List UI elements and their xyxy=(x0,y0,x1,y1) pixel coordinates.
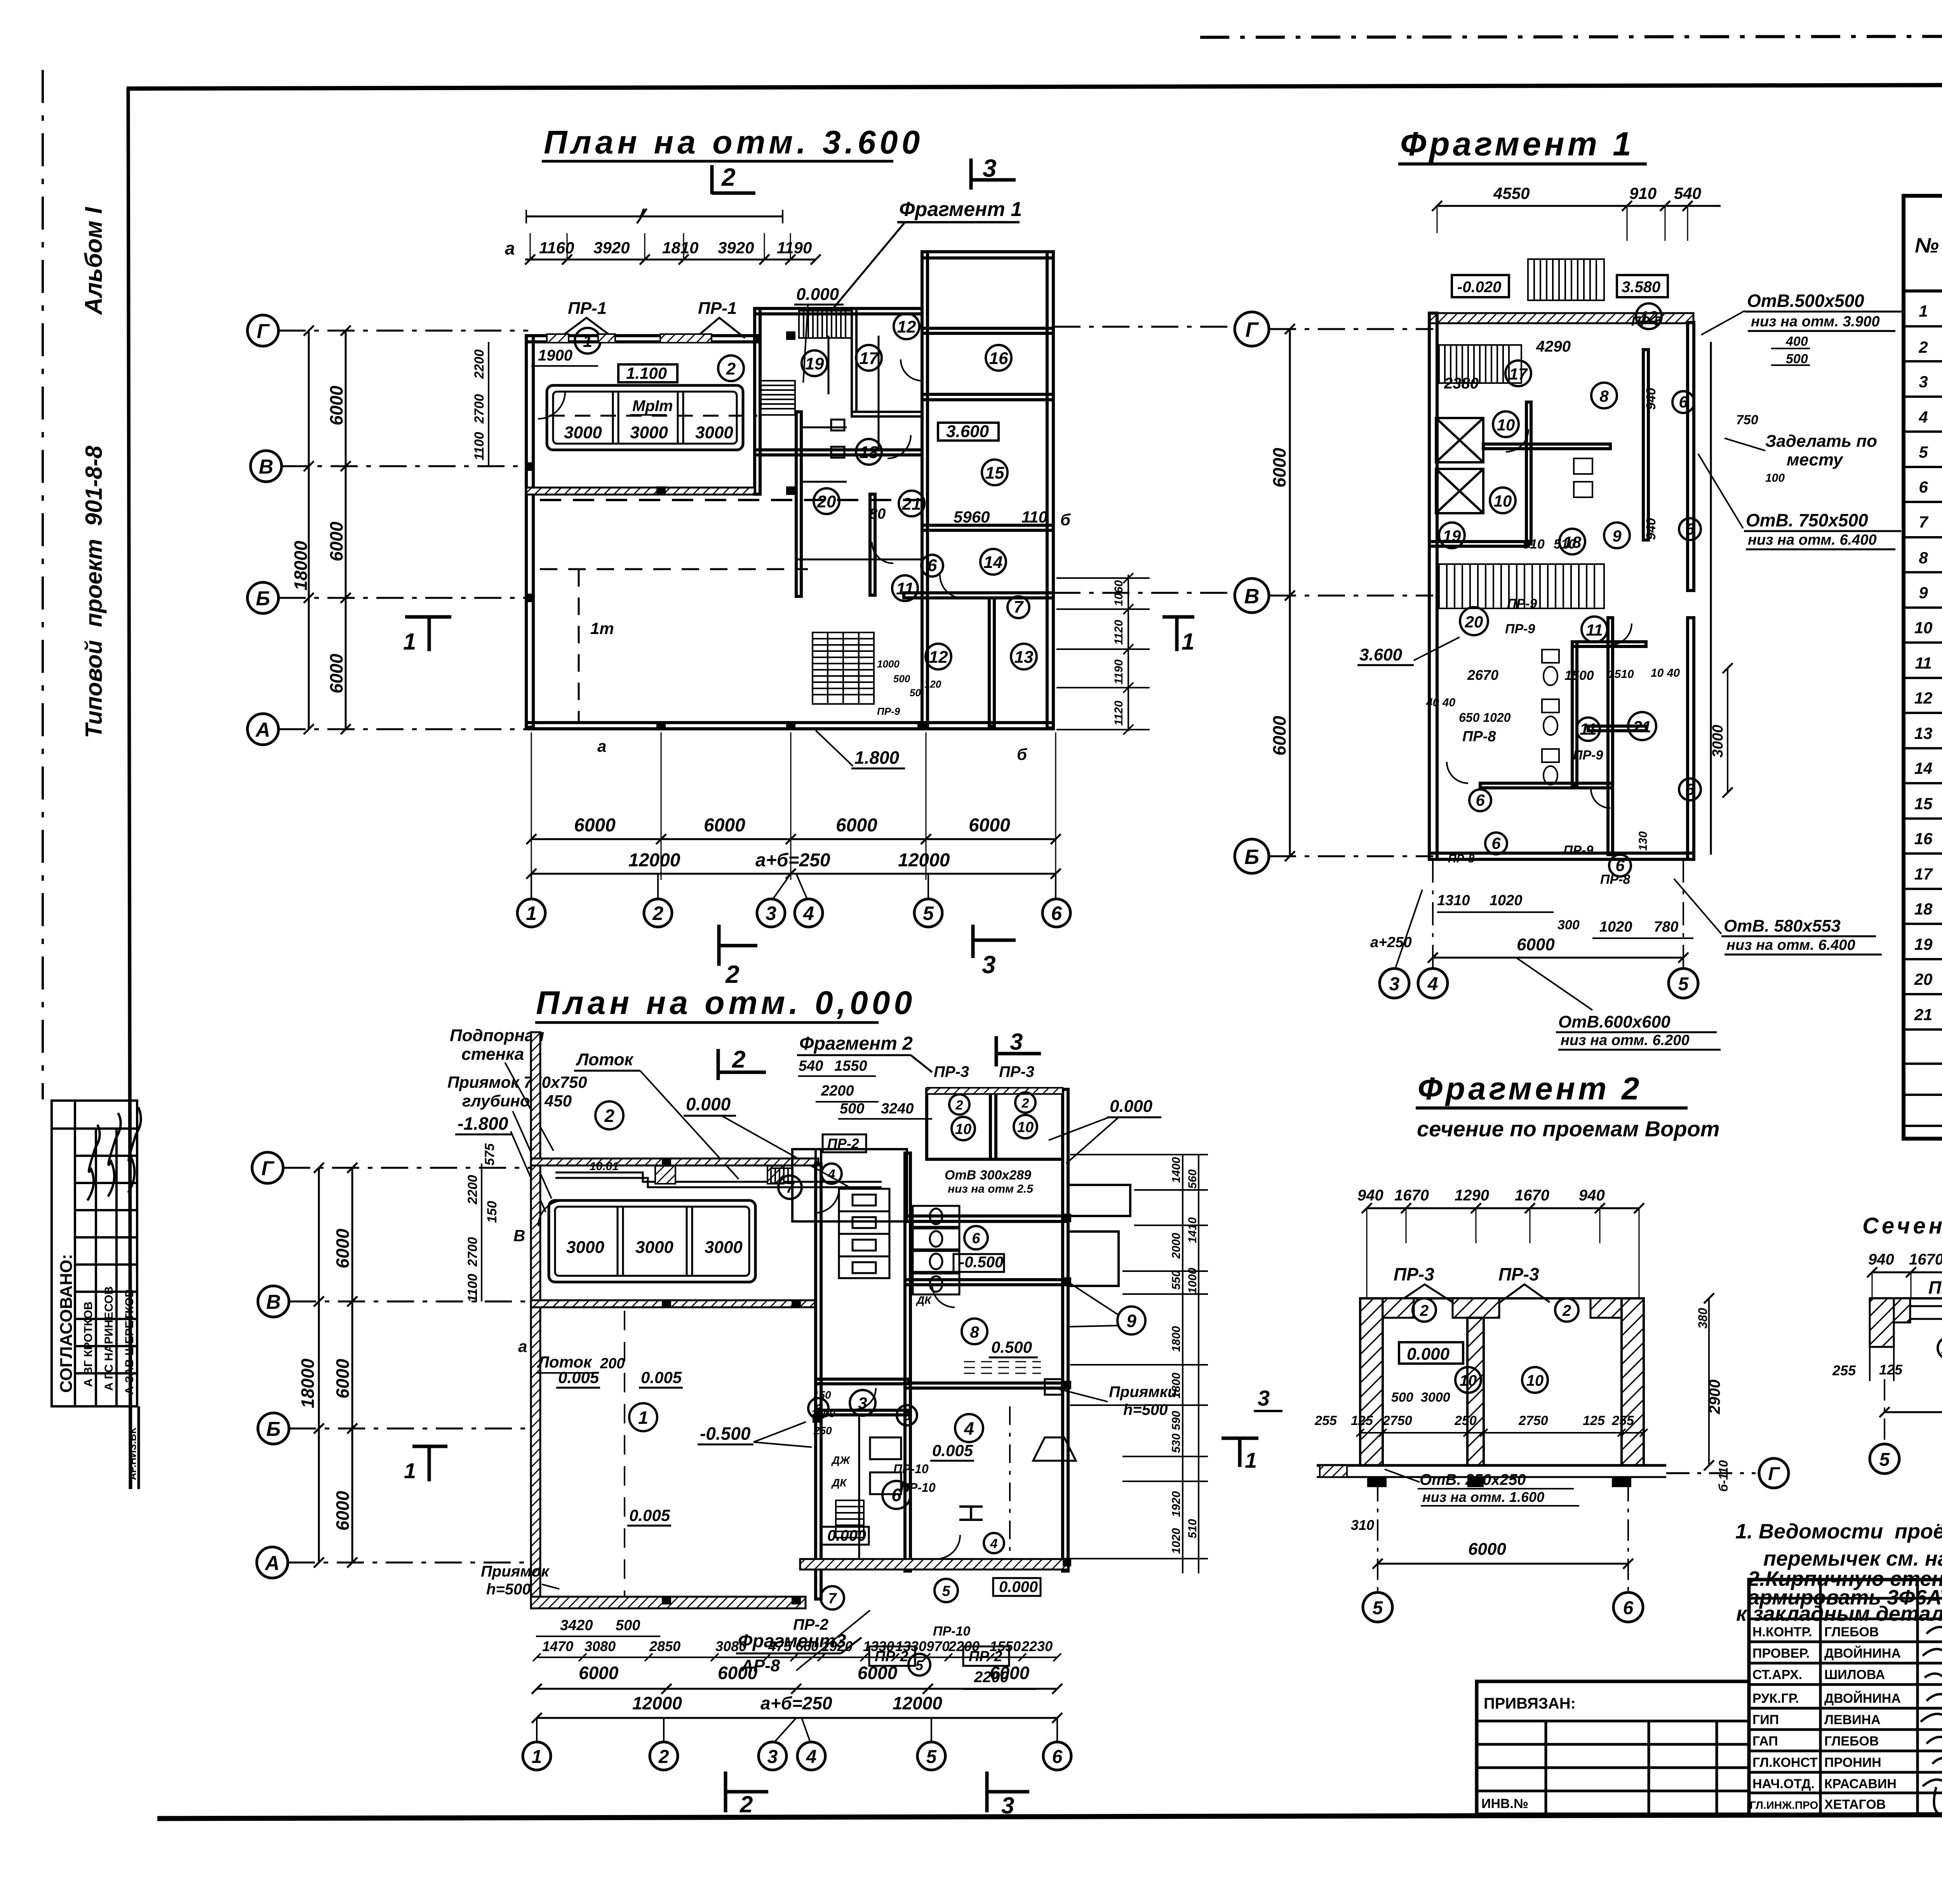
svg-text:0.005: 0.005 xyxy=(629,1506,670,1524)
svg-text:0.005: 0.005 xyxy=(641,1368,682,1387)
svg-text:18: 18 xyxy=(1914,900,1933,918)
svg-text:3420: 3420 xyxy=(560,1617,593,1634)
svg-text:ОтВ. 580х553: ОтВ. 580х553 xyxy=(1724,916,1841,935)
svg-text:ДК: ДК xyxy=(831,1477,847,1489)
bottom section marks xyxy=(724,1772,727,1812)
svg-text:План на отм. 0,000: План на отм. 0,000 xyxy=(536,984,916,1021)
svg-text:14: 14 xyxy=(1914,759,1933,777)
svg-text:1120: 1120 xyxy=(1112,700,1125,726)
svg-text:1: 1 xyxy=(526,902,537,924)
svg-text:19: 19 xyxy=(805,354,824,373)
svg-text:1190: 1190 xyxy=(1112,659,1125,685)
svg-text:-0.500: -0.500 xyxy=(700,1423,751,1444)
svg-text:560: 560 xyxy=(1186,1169,1199,1189)
svg-text:6: 6 xyxy=(1476,791,1485,809)
svg-text:125: 125 xyxy=(1583,1413,1605,1428)
svg-text:16: 16 xyxy=(989,349,1008,368)
right annexes xyxy=(1068,1185,1130,1216)
svg-text:1410: 1410 xyxy=(1186,1217,1199,1243)
svg-text:2: 2 xyxy=(1918,338,1928,356)
svg-text:ОтВ. 750х500: ОтВ. 750х500 xyxy=(1746,510,1868,530)
svg-text:3: 3 xyxy=(766,902,776,924)
svg-text:6000: 6000 xyxy=(579,1663,619,1683)
svg-text:3000: 3000 xyxy=(695,423,733,442)
svg-text:380: 380 xyxy=(1696,1308,1710,1329)
structure xyxy=(1870,1297,1942,1300)
svg-text:1060: 1060 xyxy=(1112,580,1125,606)
svg-text:6: 6 xyxy=(1051,902,1062,924)
svg-text:2200: 2200 xyxy=(465,1175,480,1205)
svg-text:13: 13 xyxy=(1015,648,1034,667)
svg-text:ДВОЙНИНА: ДВОЙНИНА xyxy=(1824,1646,1901,1661)
svg-text:Фрагмент 2: Фрагмент 2 xyxy=(1418,1071,1643,1106)
stair in vestibule xyxy=(836,1500,864,1538)
svg-text:ПР-10: ПР-10 xyxy=(933,1624,970,1639)
svg-text:ГЛ.КОНСТ: ГЛ.КОНСТ xyxy=(1752,1755,1818,1770)
svg-text:940: 940 xyxy=(1357,1187,1383,1204)
svg-text:3: 3 xyxy=(982,951,996,979)
svg-text:ПРИВЯЗАН:: ПРИВЯЗАН: xyxy=(1484,1695,1576,1712)
svg-text:21: 21 xyxy=(1633,718,1651,736)
stair 1 xyxy=(1439,345,1521,383)
svg-text:ГИП: ГИП xyxy=(1752,1712,1779,1727)
svg-text:21: 21 xyxy=(1914,1005,1933,1024)
bottom stair xyxy=(813,632,874,704)
fixtures in shower block xyxy=(796,336,922,559)
svg-text:6: 6 xyxy=(1615,856,1625,874)
svg-text:0.000: 0.000 xyxy=(796,285,839,304)
column pads xyxy=(655,1166,675,1184)
svg-text:150: 150 xyxy=(813,1389,831,1401)
svg-text:ПР-3: ПР-3 xyxy=(1498,1264,1539,1284)
svg-text:4: 4 xyxy=(828,1167,835,1182)
svg-text:3: 3 xyxy=(1389,974,1400,995)
section mark 2 top xyxy=(710,165,714,194)
svg-text:к закладным деталям в колоннах: к закладным деталям в колоннах. xyxy=(1736,1602,1942,1625)
left axes xyxy=(278,331,528,729)
svg-text:12: 12 xyxy=(1914,689,1933,707)
svg-text:50: 50 xyxy=(910,687,921,699)
svg-text:5: 5 xyxy=(926,1747,937,1767)
svg-text:6000: 6000 xyxy=(1269,448,1289,488)
svg-text:8: 8 xyxy=(970,1323,979,1341)
svg-text:10 40: 10 40 xyxy=(1651,667,1680,679)
svg-text:6000: 6000 xyxy=(704,815,745,836)
svg-text:5: 5 xyxy=(1678,974,1689,995)
svg-text:80: 80 xyxy=(869,506,886,522)
svg-text:2200: 2200 xyxy=(948,1638,980,1654)
svg-text:ПР-9: ПР-9 xyxy=(877,706,900,717)
svg-text:МрIт: МрIт xyxy=(632,397,673,415)
svg-text:1550: 1550 xyxy=(834,1058,867,1074)
svg-text:0.000: 0.000 xyxy=(1110,1097,1153,1116)
sanitary fixtures fragment1 xyxy=(1542,458,1592,785)
svg-text:4: 4 xyxy=(964,1418,974,1439)
svg-text:11: 11 xyxy=(1580,720,1597,738)
fragment1 small texts xyxy=(1426,314,1680,887)
building walls xyxy=(1429,313,1693,323)
circles xyxy=(1413,1298,1578,1393)
svg-text:КРАСАВИН: КРАСАВИН xyxy=(1824,1777,1897,1791)
svg-text:19: 19 xyxy=(1443,527,1461,545)
svg-text:2230: 2230 xyxy=(1021,1638,1053,1654)
T1 mark left plan2 xyxy=(412,1445,447,1448)
axis leaders and circles xyxy=(1395,859,1683,969)
dash centerline room1 xyxy=(624,1311,625,1597)
svg-text:7: 7 xyxy=(828,1590,837,1607)
svg-text:ПР-10: ПР-10 xyxy=(900,1481,936,1495)
svg-text:ОтВ.500х500: ОтВ.500х500 xyxy=(1747,291,1864,311)
svg-text:9: 9 xyxy=(1919,584,1928,602)
svg-text:а+б=250: а+б=250 xyxy=(760,1693,832,1713)
svg-text:4290: 4290 xyxy=(1536,338,1571,355)
section marks bottom plan1 xyxy=(717,925,721,966)
svg-text:ОтВ 300х289: ОтВ 300х289 xyxy=(945,1168,1031,1183)
column marks plan2 xyxy=(662,1158,1071,1604)
svg-text:Заделать по: Заделать по xyxy=(1765,432,1877,451)
svg-text:11: 11 xyxy=(1915,654,1932,672)
svg-text:3: 3 xyxy=(1919,373,1928,391)
svg-text:0.000: 0.000 xyxy=(999,1578,1038,1596)
svg-text:540: 540 xyxy=(799,1058,823,1074)
svg-text:6000: 6000 xyxy=(326,653,346,693)
svg-text:5: 5 xyxy=(915,1657,924,1673)
svg-text:ПР-3: ПР-3 xyxy=(1394,1264,1434,1284)
svg-text:150: 150 xyxy=(485,1201,499,1223)
svg-text:4: 4 xyxy=(990,1536,998,1551)
level labels xyxy=(558,1168,1038,1596)
svg-text:10: 10 xyxy=(1914,618,1933,637)
svg-text:В: В xyxy=(513,1226,525,1245)
callout texts top-left xyxy=(447,1026,587,1134)
svg-text:ЛЕВИНА: ЛЕВИНА xyxy=(1824,1712,1881,1727)
svg-text:6: 6 xyxy=(903,1409,911,1423)
svg-text:5: 5 xyxy=(923,902,934,924)
door swing arcs plan1 xyxy=(538,359,963,598)
svg-text:1310: 1310 xyxy=(1437,892,1470,909)
svg-text:А ЗАВ ШЕРЕТКОВ: А ЗАВ ШЕРЕТКОВ xyxy=(123,1289,136,1395)
approval table (rotated) xyxy=(52,1101,137,1406)
svg-text:3000: 3000 xyxy=(566,1238,604,1257)
svg-text:1: 1 xyxy=(638,1408,648,1428)
left axes plan2 xyxy=(283,1168,532,1563)
svg-text:В: В xyxy=(1244,585,1260,608)
svg-text:0.000: 0.000 xyxy=(1407,1345,1450,1364)
svg-text:6000: 6000 xyxy=(326,385,346,425)
svg-text:250: 250 xyxy=(813,1425,832,1437)
svg-text:255: 255 xyxy=(1611,1413,1634,1428)
svg-text:3000: 3000 xyxy=(564,423,602,442)
svg-text:0.005: 0.005 xyxy=(558,1368,599,1387)
3.600 box xyxy=(938,423,999,441)
svg-text:6: 6 xyxy=(1679,393,1688,411)
svg-text:ГЛЕБОВ: ГЛЕБОВ xyxy=(1824,1734,1879,1749)
misc vertical dims right of top-left part xyxy=(472,349,487,460)
svg-text:ОтВ. 250х250: ОтВ. 250х250 xyxy=(1420,1471,1526,1488)
svg-text:475: 475 xyxy=(768,1638,792,1654)
svg-text:h=500: h=500 xyxy=(486,1581,531,1598)
svg-text:3920: 3920 xyxy=(718,239,754,257)
svg-text:1020: 1020 xyxy=(1490,892,1523,909)
svg-text:3000: 3000 xyxy=(635,1238,673,1257)
svg-text:3: 3 xyxy=(983,154,997,182)
svg-text:б: б xyxy=(1060,510,1071,529)
svg-text:низ на отм 2.5: низ на отм 2.5 xyxy=(948,1183,1034,1195)
door swing arcs plan2 xyxy=(538,1189,960,1559)
svg-text:5: 5 xyxy=(1373,1598,1383,1618)
svg-text:ГАП: ГАП xyxy=(1752,1734,1778,1749)
svg-text:Н.КОНТР.: Н.КОНТР. xyxy=(1752,1625,1812,1639)
svg-text:2380: 2380 xyxy=(1444,375,1479,392)
svg-text:5: 5 xyxy=(1919,443,1928,461)
svg-text:1920: 1920 xyxy=(821,1638,853,1654)
svg-text:ПР-3: ПР-3 xyxy=(1928,1277,1942,1298)
svg-text:1800: 1800 xyxy=(1170,1373,1183,1399)
svg-text:Б: Б xyxy=(266,1418,281,1441)
svg-text:2: 2 xyxy=(740,1791,753,1817)
svg-text:940: 940 xyxy=(1644,518,1658,540)
svg-text:3000: 3000 xyxy=(1710,725,1726,758)
svg-text:1670: 1670 xyxy=(1394,1187,1429,1204)
svg-text:2700: 2700 xyxy=(465,1237,480,1267)
svg-text:ПР-8: ПР-8 xyxy=(1448,852,1475,865)
leaders to axis circles xyxy=(531,874,1056,899)
svg-text:530 590: 530 590 xyxy=(1170,1411,1183,1453)
svg-text:500: 500 xyxy=(616,1617,640,1634)
main frame xyxy=(127,84,1942,89)
svg-text:18: 18 xyxy=(860,443,879,462)
svg-text:1120: 1120 xyxy=(1112,620,1125,645)
svg-text:а: а xyxy=(518,1337,527,1355)
svg-text:НАЧ.ОТД.: НАЧ.ОТД. xyxy=(1752,1777,1815,1791)
svg-text:2: 2 xyxy=(1562,1302,1571,1319)
svg-text:6: 6 xyxy=(1623,1598,1634,1618)
svg-text:2: 2 xyxy=(726,359,736,378)
svg-text:Лоток: Лоток xyxy=(576,1050,634,1069)
svg-text:-0.020: -0.020 xyxy=(1457,279,1501,296)
svg-text:1670: 1670 xyxy=(1515,1187,1549,1204)
tanks xyxy=(547,385,743,450)
svg-text:19: 19 xyxy=(1914,935,1933,953)
extension lines to bottom dims xyxy=(531,732,1056,880)
svg-text:310: 310 xyxy=(1351,1517,1374,1533)
room circles xyxy=(575,314,1037,669)
pit details bottom right xyxy=(1033,1379,1076,1461)
extra sill on plan1 top wall xyxy=(598,334,615,343)
svg-text:3000: 3000 xyxy=(705,1238,743,1257)
svg-text:1550: 1550 xyxy=(990,1638,1021,1654)
svg-text:низ на отм. 6.400: низ на отм. 6.400 xyxy=(1748,532,1877,548)
svg-text:1m: 1m xyxy=(590,619,614,638)
svg-text:540: 540 xyxy=(1674,184,1701,202)
section mark 3 top xyxy=(969,159,973,190)
svg-text:1: 1 xyxy=(404,1458,416,1483)
svg-text:12000: 12000 xyxy=(898,850,950,871)
row lines xyxy=(1904,325,1942,327)
svg-text:№: № xyxy=(1915,234,1939,257)
svg-text:ПР-8: ПР-8 xyxy=(1600,872,1630,887)
svg-text:9: 9 xyxy=(1126,1311,1136,1331)
svg-text:18000: 18000 xyxy=(291,541,311,591)
svg-text:1190: 1190 xyxy=(777,239,812,257)
svg-text:6000: 6000 xyxy=(1517,935,1555,954)
svg-text:12: 12 xyxy=(929,648,948,667)
svg-text:месту: месту xyxy=(1787,450,1844,469)
svg-text:А: А xyxy=(255,719,270,741)
svg-text:1. Ведомости проёмов дверей и: 1. Ведомости проёмов дверей и Ворот, пер… xyxy=(1735,1520,1942,1543)
svg-text:2: 2 xyxy=(721,163,736,191)
dim row xyxy=(1314,1390,1634,1428)
plan2 bath partitions xyxy=(859,1415,901,1559)
svg-text:3080: 3080 xyxy=(585,1638,616,1654)
svg-text:2000: 2000 xyxy=(1170,1233,1183,1259)
table grid xyxy=(1904,196,1942,1139)
svg-text:1: 1 xyxy=(532,1747,542,1767)
svg-text:перемычек см. на листе АР-6: перемычек см. на листе АР-6 xyxy=(1763,1547,1942,1570)
svg-text:ХЕТАГОВ: ХЕТАГОВ xyxy=(1824,1797,1886,1812)
svg-text:СТ.АРХ.: СТ.АРХ. xyxy=(1752,1667,1802,1682)
svg-text:3.600: 3.600 xyxy=(946,422,989,441)
svg-text:ИНВ.№: ИНВ.№ xyxy=(1481,1796,1528,1811)
entrance porch xyxy=(792,1149,907,1221)
svg-text:ПР-3: ПР-3 xyxy=(934,1063,969,1080)
window sills hatched xyxy=(547,334,569,343)
bottom walls xyxy=(800,1559,1068,1570)
svg-text:18000: 18000 xyxy=(298,1359,318,1408)
svg-text:1510: 1510 xyxy=(1608,668,1634,681)
svg-text:750: 750 xyxy=(1736,413,1758,427)
svg-text:650 1020: 650 1020 xyxy=(1459,711,1511,725)
svg-text:1330: 1330 xyxy=(895,1638,926,1654)
svg-text:910: 910 xyxy=(1629,184,1657,202)
svg-text:6000: 6000 xyxy=(1269,716,1289,756)
svg-text:сечение по проемам Ворот: сечение по проемам Ворот xyxy=(1417,1117,1720,1141)
svg-text:2750: 2750 xyxy=(1518,1413,1548,1428)
svg-text:ГЛЕБОВ: ГЛЕБОВ xyxy=(1824,1625,1879,1639)
svg-text:16: 16 xyxy=(1914,829,1933,848)
top dash-dot fold line xyxy=(1200,36,1942,37)
svg-text:глубиной 450: глубиной 450 xyxy=(462,1092,572,1110)
top overall dim xyxy=(526,216,783,218)
svg-text:6000: 6000 xyxy=(326,521,346,561)
extra treads dark plan1 bottom stair xyxy=(828,632,859,704)
svg-text:12000: 12000 xyxy=(628,850,680,871)
svg-text:3: 3 xyxy=(1010,1029,1023,1055)
svg-text:7: 7 xyxy=(1919,513,1928,531)
svg-text:0.000: 0.000 xyxy=(827,1527,866,1544)
svg-text:ДВОЙНИНА: ДВОЙНИНА xyxy=(1824,1691,1901,1706)
svg-text:5960: 5960 xyxy=(954,508,990,526)
svg-text:0.005: 0.005 xyxy=(932,1441,973,1460)
svg-text:1160: 1160 xyxy=(539,239,574,257)
dashed lines room 1 xyxy=(540,568,808,570)
svg-text:Г: Г xyxy=(1768,1464,1780,1484)
svg-text:б: б xyxy=(1017,745,1027,763)
svg-text:б-110: б-110 xyxy=(1716,1460,1730,1492)
plan2 wc battery along wall 2330 xyxy=(913,1206,959,1294)
signature table grid xyxy=(1749,1580,1942,1814)
svg-text:130: 130 xyxy=(1637,831,1650,851)
svg-text:ДК: ДК xyxy=(916,1294,932,1306)
svg-text:1020: 1020 xyxy=(1170,1528,1183,1554)
svg-text:10: 10 xyxy=(955,1121,971,1138)
svg-text:250: 250 xyxy=(1454,1413,1477,1428)
T1 section mark right xyxy=(1162,615,1194,619)
svg-text:Г: Г xyxy=(257,320,270,343)
svg-text:ПР-8: ПР-8 xyxy=(1462,728,1496,745)
svg-text:Приямки: Приямки xyxy=(1109,1383,1177,1401)
svg-text:500: 500 xyxy=(893,673,910,685)
svg-text:780: 780 xyxy=(1654,919,1678,935)
svg-text:940: 940 xyxy=(1868,1251,1894,1268)
dim line 12000s xyxy=(531,873,1056,875)
svg-text:2750: 2750 xyxy=(1382,1413,1412,1428)
svg-text:Б: Б xyxy=(256,587,270,610)
svg-text:7: 7 xyxy=(786,1180,795,1196)
svg-text:1: 1 xyxy=(1245,1448,1257,1472)
svg-text:2: 2 xyxy=(732,1046,745,1073)
svg-text:500: 500 xyxy=(1391,1390,1413,1405)
svg-text:ПР-1: ПР-1 xyxy=(568,299,607,318)
svg-text:1020: 1020 xyxy=(1599,919,1632,935)
svg-text:Альбом І: Альбом І xyxy=(80,206,107,315)
circle 9 leaders xyxy=(1068,1282,1119,1315)
svg-text:1.800: 1.800 xyxy=(854,747,900,768)
svg-text:13: 13 xyxy=(1914,724,1933,742)
leaders to circles xyxy=(537,1718,1057,1742)
svg-text:4: 4 xyxy=(1427,974,1438,995)
svg-text:1290: 1290 xyxy=(1455,1187,1489,1204)
svg-text:300: 300 xyxy=(1557,918,1580,932)
plan2 locker block xyxy=(839,1189,889,1278)
1.100 box xyxy=(618,364,677,382)
svg-text:Б: Б xyxy=(1244,845,1259,869)
svg-text:255: 255 xyxy=(1832,1362,1856,1378)
header text xyxy=(1915,234,1942,263)
svg-text:А ВГ КРОТКОВ: А ВГ КРОТКОВ xyxy=(82,1301,95,1387)
svg-text:6000: 6000 xyxy=(969,815,1010,836)
svg-text:ПР-3: ПР-3 xyxy=(999,1063,1034,1080)
svg-text:Г: Г xyxy=(261,1157,275,1180)
svg-text:В: В xyxy=(259,456,273,478)
retaining wall + top wall xyxy=(531,1032,540,1608)
svg-text:3000: 3000 xyxy=(630,423,668,442)
svg-text:ГЛ.ИНЖ.ПРО: ГЛ.ИНЖ.ПРО xyxy=(1750,1799,1818,1811)
svg-text:10: 10 xyxy=(1017,1119,1034,1136)
svg-text:3: 3 xyxy=(767,1747,778,1767)
svg-text:1100: 1100 xyxy=(465,1274,480,1302)
svg-text:1000: 1000 xyxy=(1186,1268,1199,1294)
svg-text:4: 4 xyxy=(803,902,814,924)
axis circles plan2 xyxy=(523,1742,1071,1770)
svg-text:0.500: 0.500 xyxy=(991,1338,1032,1356)
svg-text:20: 20 xyxy=(817,492,836,511)
svg-text:12000: 12000 xyxy=(632,1693,682,1713)
svg-text:3.600: 3.600 xyxy=(1359,645,1403,664)
svg-text:3000: 3000 xyxy=(1421,1390,1450,1405)
svg-text:3.580: 3.580 xyxy=(1622,279,1660,296)
svg-text:1: 1 xyxy=(403,629,416,655)
axis circles left of fragment1 xyxy=(1269,329,1433,856)
svg-text:ПРОНИН: ПРОНИН xyxy=(1824,1755,1881,1770)
svg-text:ПРОВЕР.: ПРОВЕР. xyxy=(1752,1646,1810,1661)
svg-text:ПР-2: ПР-2 xyxy=(827,1136,859,1151)
svg-text:510: 510 xyxy=(1186,1519,1199,1538)
svg-text:а+б=250: а+б=250 xyxy=(755,850,830,871)
fragment1 door arcs xyxy=(1447,429,1632,808)
svg-text:6000: 6000 xyxy=(990,1663,1030,1683)
svg-text:10: 10 xyxy=(1497,416,1515,434)
